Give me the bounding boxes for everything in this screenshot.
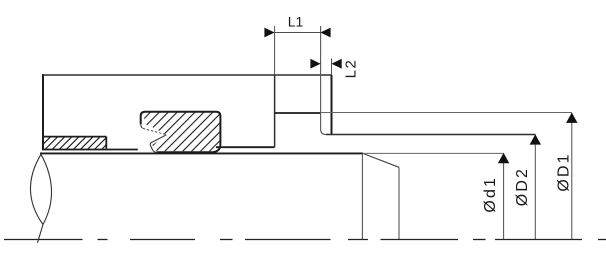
svg-text:L2: L2 (343, 59, 360, 79)
svg-text:ØD2: ØD2 (514, 167, 531, 206)
svg-text:L1: L1 (288, 14, 304, 30)
svg-text:Ød1: Ød1 (482, 176, 499, 213)
svg-text:ØD1: ØD1 (556, 152, 573, 191)
